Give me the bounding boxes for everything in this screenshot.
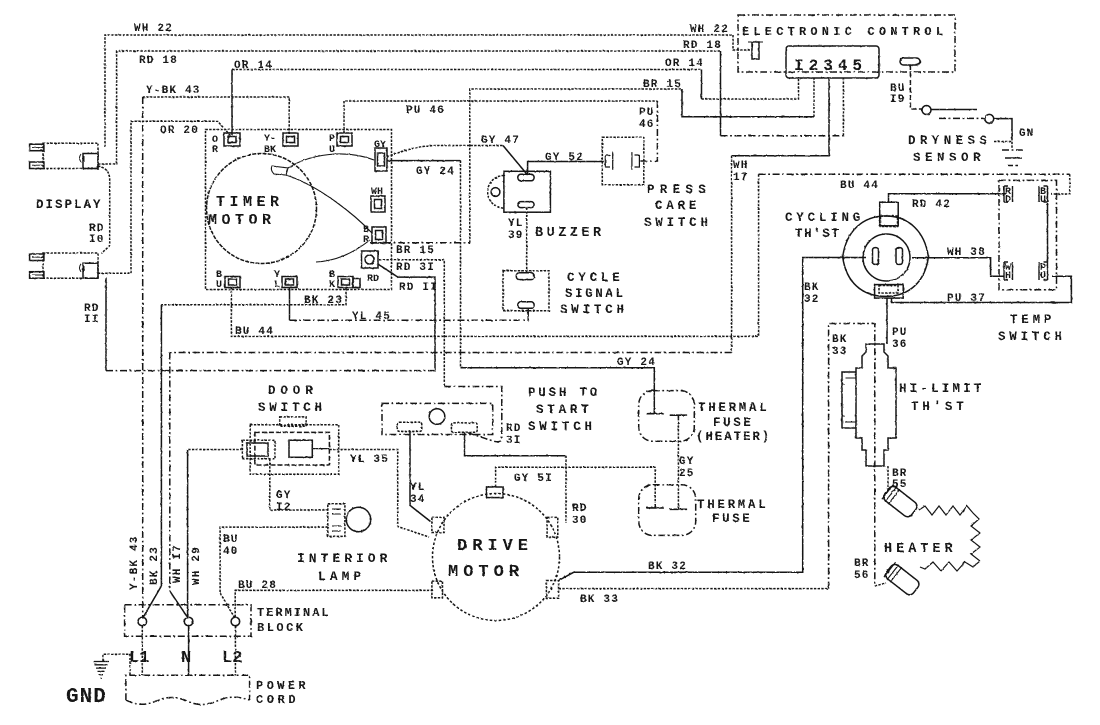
svg-text:OR 20: OR 20 — [160, 125, 199, 137]
svg-text:RD II: RD II — [399, 282, 438, 294]
svg-text:3I: 3I — [506, 435, 522, 447]
svg-text:GY 47: GY 47 — [481, 135, 520, 147]
svg-text:RD 18: RD 18 — [683, 40, 722, 52]
svg-text:YL 45: YL 45 — [352, 311, 391, 323]
svg-text:GY: GY — [276, 490, 292, 502]
svg-text:BR 15: BR 15 — [396, 245, 435, 257]
svg-text:36: 36 — [892, 339, 908, 351]
svg-text:OR 14: OR 14 — [665, 58, 704, 70]
svg-text:BU: BU — [223, 534, 239, 546]
svg-text:PUSH TO: PUSH TO — [528, 386, 600, 400]
svg-text:PRESS: PRESS — [647, 183, 711, 197]
svg-text:H: H — [1005, 271, 1011, 282]
svg-text:TH'ST: TH'ST — [795, 227, 841, 241]
svg-text:CYCLE: CYCLE — [567, 271, 624, 285]
svg-text:GY 24: GY 24 — [617, 357, 656, 369]
svg-text:GND: GND — [66, 686, 107, 709]
svg-text:BU 28: BU 28 — [238, 580, 277, 592]
svg-text:U: U — [329, 145, 335, 156]
svg-text:I9: I9 — [890, 94, 906, 106]
svg-text:DRIVE: DRIVE — [457, 537, 533, 556]
svg-text:SWITCH: SWITCH — [528, 420, 596, 434]
svg-text:TEMP: TEMP — [1010, 313, 1055, 327]
svg-text:BU 44: BU 44 — [840, 180, 879, 192]
svg-text:TERMINAL: TERMINAL — [257, 606, 331, 620]
svg-text:POWER: POWER — [256, 679, 309, 693]
svg-text:Y-BK 43: Y-BK 43 — [146, 85, 201, 97]
svg-text:THERMAL: THERMAL — [697, 498, 768, 512]
svg-text:MOTOR: MOTOR — [208, 212, 276, 229]
svg-text:YL: YL — [508, 218, 524, 230]
svg-text:II: II — [84, 314, 100, 326]
svg-text:HEATER: HEATER — [884, 542, 957, 557]
svg-text:BK 23: BK 23 — [149, 546, 161, 585]
svg-text:WH: WH — [733, 160, 749, 172]
svg-text:K: K — [329, 280, 335, 291]
svg-text:BR 15: BR 15 — [643, 79, 682, 91]
svg-text:DISPLAY: DISPLAY — [36, 198, 103, 212]
svg-text:55: 55 — [892, 479, 908, 491]
svg-text:WH 29: WH 29 — [191, 546, 203, 585]
svg-text:I2: I2 — [276, 502, 292, 514]
svg-text:L: L — [274, 280, 280, 291]
svg-text:SWITCH: SWITCH — [258, 401, 326, 415]
svg-text:BK: BK — [832, 334, 848, 346]
svg-text:(HEATER): (HEATER) — [696, 430, 771, 444]
svg-text:WH: WH — [371, 187, 383, 198]
svg-text:BR: BR — [854, 558, 870, 570]
svg-text:MOTOR: MOTOR — [448, 563, 524, 582]
svg-text:BK: BK — [264, 145, 276, 156]
svg-text:WH 38: WH 38 — [947, 247, 986, 259]
svg-text:P: P — [329, 134, 335, 145]
svg-text:YL: YL — [410, 482, 426, 494]
svg-text:CARE: CARE — [655, 199, 700, 213]
svg-text:I0: I0 — [89, 234, 105, 246]
svg-text:BK 23: BK 23 — [304, 295, 343, 307]
svg-text:BLOCK: BLOCK — [257, 621, 306, 635]
svg-text:34: 34 — [410, 494, 426, 506]
svg-text:39: 39 — [508, 230, 524, 242]
svg-text:FUSE: FUSE — [712, 512, 752, 526]
svg-text:SIGNAL: SIGNAL — [565, 287, 626, 301]
svg-text:GY: GY — [374, 140, 386, 151]
svg-text:TH'ST: TH'ST — [911, 400, 968, 414]
svg-text:17: 17 — [733, 172, 749, 184]
svg-text:D: D — [1005, 195, 1011, 206]
svg-text:R: R — [363, 235, 369, 246]
svg-text:GY 52: GY 52 — [545, 152, 584, 164]
svg-text:WH 22: WH 22 — [134, 23, 173, 35]
svg-text:PU: PU — [639, 107, 655, 119]
svg-text:GY 5I: GY 5I — [514, 473, 553, 485]
svg-text:GN: GN — [1019, 128, 1035, 140]
svg-text:32: 32 — [804, 294, 820, 306]
svg-text:DRYNESS: DRYNESS — [908, 134, 991, 148]
svg-text:U: U — [216, 280, 222, 291]
svg-text:25: 25 — [679, 468, 695, 480]
svg-text:SWITCH: SWITCH — [998, 330, 1066, 344]
svg-text:56: 56 — [854, 570, 870, 582]
svg-text:GY: GY — [679, 456, 695, 468]
svg-text:YL 35: YL 35 — [350, 454, 389, 466]
svg-text:RD: RD — [367, 274, 379, 285]
svg-text:START: START — [536, 403, 593, 417]
svg-text:N: N — [181, 649, 191, 668]
svg-text:U: U — [1040, 271, 1046, 282]
svg-text:I2345: I2345 — [794, 57, 867, 75]
svg-text:SWITCH: SWITCH — [560, 303, 628, 317]
svg-text:RD 18: RD 18 — [139, 55, 178, 67]
svg-text:FUSE: FUSE — [713, 416, 753, 430]
svg-text:PU: PU — [892, 327, 908, 339]
svg-text:TIMER: TIMER — [216, 194, 284, 211]
svg-text:INTERIOR: INTERIOR — [297, 551, 391, 566]
svg-text:46: 46 — [639, 119, 655, 131]
svg-text:R: R — [212, 145, 218, 156]
svg-text:BK 32: BK 32 — [648, 561, 687, 573]
svg-text:WH 22: WH 22 — [690, 24, 729, 36]
svg-text:CORD: CORD — [256, 693, 299, 707]
svg-text:33: 33 — [832, 346, 848, 358]
svg-text:GY 24: GY 24 — [416, 166, 455, 178]
svg-text:PU 46: PU 46 — [406, 105, 445, 117]
svg-text:30: 30 — [572, 515, 588, 527]
svg-text:LAMP: LAMP — [318, 569, 365, 584]
svg-text:L2: L2 — [222, 649, 242, 668]
svg-text:U: U — [1040, 195, 1046, 206]
svg-text:RD 3I: RD 3I — [396, 262, 435, 274]
svg-text:RD: RD — [572, 503, 588, 515]
svg-text:CYCLING: CYCLING — [785, 211, 864, 225]
svg-text:BU 44: BU 44 — [235, 326, 274, 338]
svg-text:Y-: Y- — [264, 134, 276, 145]
svg-text:OR 14: OR 14 — [234, 60, 273, 72]
svg-text:SWITCH: SWITCH — [644, 216, 712, 230]
svg-text:ELECTRONIC CONTROL: ELECTRONIC CONTROL — [742, 25, 947, 39]
svg-text:L1: L1 — [129, 649, 149, 668]
svg-text:THERMAL: THERMAL — [698, 401, 769, 415]
svg-text:DOOR: DOOR — [268, 384, 318, 398]
svg-text:RD 42: RD 42 — [912, 199, 951, 211]
svg-text:SENSOR: SENSOR — [913, 151, 985, 165]
svg-text:40: 40 — [223, 546, 239, 558]
svg-text:HI-LIMIT: HI-LIMIT — [899, 382, 985, 396]
svg-text:RD: RD — [506, 423, 522, 435]
svg-text:BK 33: BK 33 — [580, 594, 619, 606]
svg-text:Y-BK 43: Y-BK 43 — [129, 535, 141, 590]
svg-text:WH I7: WH I7 — [172, 544, 184, 583]
svg-text:BK: BK — [804, 282, 820, 294]
svg-text:BUZZER: BUZZER — [535, 226, 605, 241]
svg-text:PU 37: PU 37 — [947, 293, 986, 305]
